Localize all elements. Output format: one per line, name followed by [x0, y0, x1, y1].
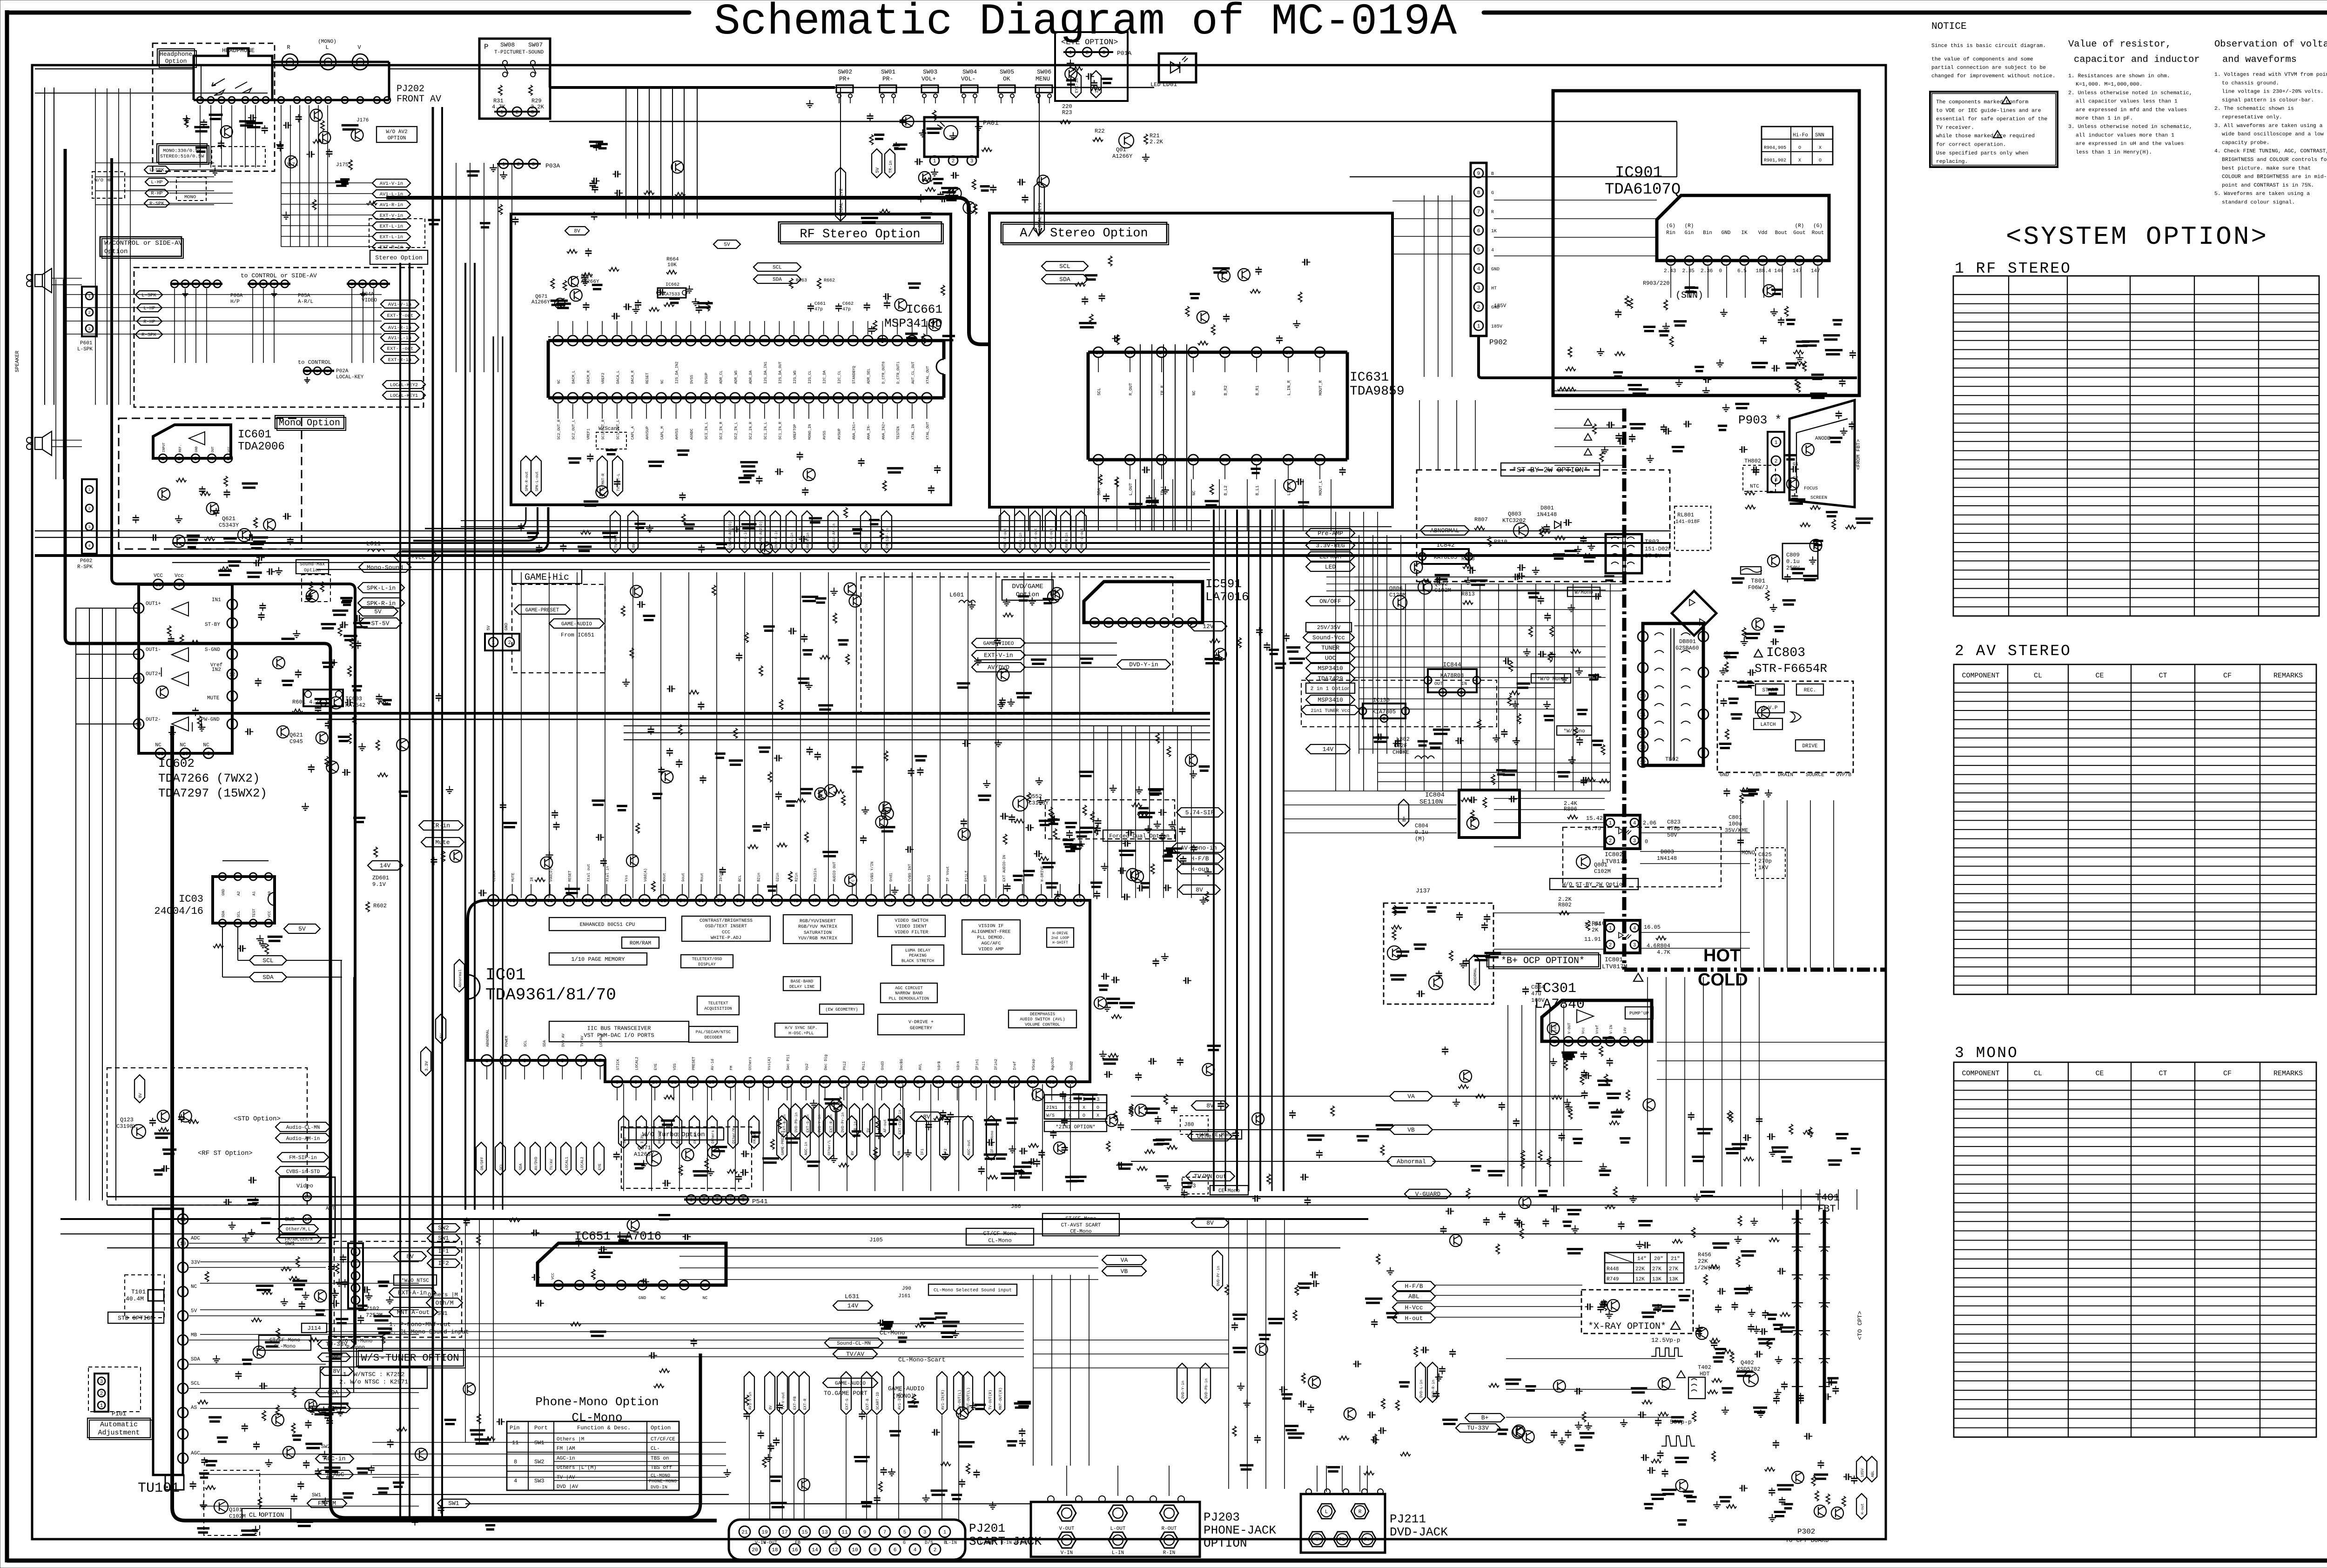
front AV pin bar	[194, 99, 389, 101]
svg-text:2in1 TUNER Vcc: 2in1 TUNER Vcc	[1311, 708, 1350, 714]
component cluster: right of IC602 zone2	[342, 772, 345, 773]
svg-text:J174: J174	[286, 162, 298, 168]
CT/CF-Mono box left	[259, 1335, 311, 1350]
svg-text:3: 3	[716, 1198, 719, 1203]
svg-text:ADR_CL: ADR_CL	[720, 370, 724, 384]
table 2 AV STEREO	[1954, 664, 2316, 994]
svg-text:9: 9	[1477, 171, 1480, 177]
svg-text:SCL: SCL	[262, 957, 273, 964]
svg-text:3: 3	[236, 875, 239, 879]
svg-text:RF Stereo Option: RF Stereo Option	[800, 228, 920, 241]
svg-text:ADR_DA: ADR_DA	[749, 370, 753, 384]
svg-text:P03A: P03A	[545, 162, 560, 169]
svg-text:Vdd(D): Vdd(D)	[549, 868, 553, 882]
Q804 KTA1024Y	[1387, 946, 1401, 960]
svg-text:*2IN1 OPTION*: *2IN1 OPTION*	[1056, 1125, 1096, 1130]
svg-text:28: 28	[992, 1080, 998, 1086]
R804 4.7K	[1656, 936, 1666, 940]
svg-text:IK: IK	[1741, 230, 1748, 236]
svg-text:2K: 2K	[1592, 927, 1599, 933]
svg-text:63: 63	[509, 898, 515, 904]
svg-text:NC: NC	[180, 743, 186, 748]
svg-text:22: 22	[879, 1080, 885, 1086]
svg-text:8V: 8V	[406, 1253, 414, 1260]
svg-text:12: 12	[1640, 760, 1646, 766]
svg-text:NOTICE: NOTICE	[1931, 21, 1967, 32]
svg-text:IC631: IC631	[1350, 370, 1389, 385]
svg-text:47: 47	[850, 396, 856, 402]
svg-text:O: O	[1096, 1106, 1099, 1111]
H/V SYNC SEP box	[775, 1023, 827, 1037]
P101 connector	[94, 1374, 108, 1412]
Q802 C102M	[1418, 580, 1432, 594]
IC130 KIA7805 box	[1363, 704, 1406, 718]
svg-text:DVD-Y-in: DVD-Y-in	[1129, 661, 1158, 668]
wires from HP flags	[169, 169, 233, 170]
svg-text:5: 5	[227, 456, 230, 462]
svg-text:O: O	[1083, 1113, 1085, 1119]
svg-text:EXT-R: EXT-R	[803, 1399, 807, 1410]
flag 5V game	[358, 607, 398, 616]
svg-text:COLOUR and BRIGHTNESS are in m: COLOUR and BRIGHTNESS are in mid-	[2222, 174, 2327, 180]
svg-text:11: 11	[841, 1530, 848, 1535]
connector P05A A-R/L	[248, 283, 290, 285]
svg-text:44: 44	[806, 396, 812, 402]
RCA jack L MONO	[320, 54, 336, 70]
vertical pill EYE-in	[1071, 71, 1081, 98]
svg-text:1: 1	[137, 606, 141, 612]
svg-text:VdrB: VdrB	[937, 1061, 942, 1070]
svg-text:CE: CE	[2095, 672, 2104, 680]
svg-text:SC2_OUT_R: SC2_OUT_R	[557, 420, 561, 440]
svg-text:L_OUT: L_OUT	[1129, 482, 1133, 496]
svg-text:OPTION: OPTION	[388, 136, 406, 141]
CRT bell symbol	[1789, 400, 1855, 507]
svg-text:1: 1	[354, 1298, 357, 1304]
svg-text:LOCAL-KEY: LOCAL-KEY	[336, 375, 364, 380]
svg-text:AV-R-in: AV-R-in	[1065, 532, 1069, 548]
flag EXT-V-out	[381, 311, 420, 319]
svg-text:Bin: Bin	[1703, 230, 1712, 236]
svg-text:LTV817M: LTV817M	[1602, 963, 1628, 970]
component cluster: mid right of IC01	[1183, 980, 1186, 981]
flag 8V tv	[1191, 1101, 1229, 1110]
svg-text:10: 10	[652, 1080, 658, 1086]
svg-text:16: 16	[703, 339, 708, 344]
svg-text:47p: 47p	[842, 307, 851, 312]
svg-text:46: 46	[835, 396, 841, 402]
B+ vertical pill	[1399, 799, 1409, 826]
component cluster: deflection R306 C401 C402 L401 L402 D401 R401 R402 C404	[1771, 1146, 1788, 1149]
svg-text:NC: NC	[203, 743, 209, 748]
page border top-left bar	[7, 11, 689, 15]
svg-text:34: 34	[1057, 898, 1063, 904]
svg-text:4: 4	[231, 603, 234, 608]
flag L-HP	[145, 178, 168, 186]
warning triangle symbol 1	[2002, 97, 2011, 104]
svg-text:CT/CF-Mono: CT/CF-Mono	[1065, 1216, 1096, 1222]
IC602 package	[139, 584, 232, 753]
svg-text:1: 1	[1775, 440, 1778, 446]
svg-text:O: O	[1819, 158, 1822, 163]
relay RL801 box	[1675, 506, 1711, 550]
svg-text:SDA: SDA	[543, 1040, 547, 1047]
svg-text:REC.: REC.	[1804, 688, 1816, 693]
svg-text:2.43: 2.43	[1664, 268, 1676, 274]
svg-text:62: 62	[528, 898, 534, 904]
svg-text:3. All waveforms are taken usi: 3. All waveforms are taken using a	[2214, 123, 2323, 129]
svg-text:J105: J105	[869, 1237, 883, 1243]
flags TUNER UOC MSP3410 TDA7429	[1306, 643, 1355, 652]
IC631 TDA9859 package bottom pin row	[1088, 458, 1347, 462]
svg-text:SCL: SCL	[1059, 263, 1070, 270]
flag GAME-VIDEO	[972, 638, 1025, 648]
svg-text:DVD-Pr-in: DVD-Pr-in	[841, 1112, 845, 1132]
wire: rail joiner	[549, 69, 550, 87]
svg-text:8: 8	[616, 1080, 619, 1086]
svg-text:SATURATION: SATURATION	[804, 931, 832, 936]
svg-text:14": 14"	[1637, 1256, 1647, 1262]
DVD/GAME Option dashed box	[861, 577, 1173, 714]
svg-text:P541: P541	[752, 1198, 768, 1206]
svg-text:5: 5	[1702, 670, 1705, 676]
svg-text:Xtal in: Xtal in	[606, 866, 610, 882]
flag EXT-A-in	[389, 1288, 436, 1297]
vertical pills above SCART	[744, 1372, 754, 1414]
svg-text:LA7016: LA7016	[1205, 590, 1249, 604]
svg-text:(G): (G)	[1666, 223, 1675, 229]
svg-text:SCL: SCL	[499, 1163, 504, 1170]
svg-text:DVD-R-in: DVD-R-in	[1432, 1380, 1436, 1398]
wires: power region horizontals	[1378, 763, 1610, 764]
svg-text:3: 3	[88, 525, 91, 529]
svg-text:7: 7	[1477, 209, 1480, 215]
svg-text:CT: CT	[2159, 1070, 2167, 1078]
svg-text:less than 1 in Henry(H).: less than 1 in Henry(H).	[2076, 150, 2152, 155]
svg-text:R31: R31	[493, 98, 504, 104]
svg-text:DACM_L: DACM_L	[572, 370, 576, 384]
svg-text:SW05: SW05	[1000, 68, 1014, 75]
svg-text:8: 8	[182, 1290, 185, 1295]
svg-text:(R): (R)	[1685, 223, 1694, 229]
svg-text:27K: 27K	[1669, 1266, 1678, 1272]
svg-text:NC: NC	[191, 1284, 197, 1290]
svg-text:DACA_R: DACA_R	[631, 370, 635, 384]
svg-text:10: 10	[182, 751, 188, 757]
isolation dashed bus vertical	[1622, 409, 1627, 970]
svg-text:T-SOUND: T-SOUND	[522, 50, 544, 55]
component cluster: C132 C841 R814 C831	[1455, 740, 1458, 741]
svg-text:R21: R21	[1150, 133, 1160, 139]
svg-text:PJ202: PJ202	[397, 84, 424, 94]
connector game 2pin	[485, 634, 519, 650]
bus: audio loop A	[65, 149, 700, 1518]
svg-text:7: 7	[837, 339, 840, 344]
bus: horizontal bundle mid	[172, 712, 1210, 715]
svg-text:3: 3	[1633, 838, 1636, 844]
svg-text:1 RF STEREO: 1 RF STEREO	[1955, 260, 2071, 277]
op-amp C	[172, 672, 188, 686]
svg-text:GAME-PRESET: GAME-PRESET	[525, 608, 559, 613]
svg-text:ANA_IN2+: ANA_IN2+	[881, 422, 886, 440]
svg-text:38: 38	[982, 898, 988, 904]
component cluster: center-left game zone	[833, 613, 837, 623]
svg-text:0.1u: 0.1u	[1415, 829, 1428, 836]
svg-text:2: 2	[252, 875, 254, 879]
svg-text:45: 45	[849, 898, 855, 904]
W/O ST-BY 2W Option label box	[1550, 878, 1638, 890]
svg-text:7: 7	[1637, 1039, 1640, 1045]
svg-text:151-D02F: 151-D02F	[1645, 546, 1672, 552]
svg-text:1: 1	[557, 1283, 560, 1289]
bus: horizontal bundle upper	[35, 530, 1671, 531]
T802 transformer	[1643, 623, 1703, 765]
Mono Option dashed box	[119, 418, 302, 549]
svg-text:IC802: IC802	[1605, 851, 1623, 858]
svg-text:L631: L631	[845, 1293, 859, 1300]
PJ203 pins	[1048, 1496, 1054, 1502]
svg-text:SC3_IN_R: SC3_IN_R	[720, 422, 724, 440]
svg-text:changed for improvement withou: changed for improvement without notice.	[1931, 74, 2056, 79]
svg-text:20: 20	[644, 339, 649, 344]
svg-text:AgcOut: AgcOut	[1051, 1057, 1055, 1070]
PJ203 jacks	[1057, 1505, 1076, 1521]
svg-text:Bout: Bout	[1775, 230, 1787, 236]
vertical pill SPK-L-out	[531, 456, 541, 496]
flag SW2 tuner	[427, 1224, 460, 1232]
bus: right vertical bundle	[1213, 509, 1215, 1191]
svg-text:SCART-ID: SCART-ID	[876, 1392, 880, 1410]
W/O Turbo Option label box	[624, 1128, 724, 1140]
svg-text:R: R	[287, 44, 290, 51]
page border bottom	[7, 1559, 2327, 1563]
W/S tuner dashed box	[334, 1241, 462, 1337]
svg-text:5V: 5V	[191, 1308, 197, 1314]
component cluster: SCART left lower	[470, 1429, 485, 1432]
svg-text:IC591: IC591	[1205, 577, 1242, 591]
thick bus from P902	[1479, 336, 1857, 378]
svg-text:point and CONTRAST is in 75%.: point and CONTRAST is in 75%.	[2222, 183, 2314, 188]
IC802 LTV817M optocoupler	[1605, 815, 1640, 849]
svg-text:19: 19	[822, 1080, 828, 1086]
svg-text:1. P-Mono-MNT-out: 1. P-Mono-MNT-out	[389, 1321, 451, 1328]
speaker L symbol	[35, 268, 52, 293]
svg-text:L-IN: L-IN	[946, 1541, 957, 1546]
J80 dashed	[1180, 1116, 1208, 1134]
component cluster: B+ area lower	[1602, 1037, 1614, 1039]
svg-text:CF: CF	[2223, 1070, 2232, 1078]
svg-text:2: 2	[88, 507, 91, 511]
svg-text:29: 29	[1011, 1080, 1017, 1086]
svg-text:I2C_DA: I2C_DA	[823, 370, 827, 384]
svg-text:SDA: SDA	[1097, 488, 1102, 496]
svg-text:1: 1	[306, 369, 309, 374]
svg-text:15: 15	[747, 1080, 753, 1086]
svg-text:R22: R22	[1095, 128, 1105, 134]
svg-text:5: 5	[221, 921, 223, 926]
svg-text:!: !	[2005, 100, 2008, 105]
svg-text:250V: 250V	[1786, 565, 1800, 571]
svg-text:17: 17	[688, 339, 693, 344]
svg-text:B: B	[1491, 172, 1494, 177]
svg-text:12V: 12V	[1095, 85, 1099, 93]
svg-text:3.3V: 3.3V	[424, 1061, 429, 1071]
bus: trunk corner joins	[402, 507, 548, 551]
svg-text:12: 12	[690, 1080, 696, 1086]
svg-text:2: 2	[1426, 678, 1430, 684]
R808 4.7K ps	[1463, 565, 1473, 569]
DRIVE box	[1796, 740, 1824, 751]
svg-text:Option: Option	[104, 248, 128, 255]
svg-text:47: 47	[812, 898, 818, 904]
T401 FBT	[1796, 1210, 1799, 1424]
svg-text:23: 23	[1285, 458, 1291, 463]
svg-text:TB02: TB02	[1665, 756, 1679, 763]
svg-text:IR-in: IR-in	[432, 822, 450, 829]
svg-text:CT/CF/CE: CT/CF/CE	[651, 1437, 675, 1442]
svg-text:5. Waveforms are taken using a: 5. Waveforms are taken using a	[2214, 191, 2310, 197]
svg-text:IR: IR	[530, 877, 534, 882]
switch body 2	[880, 85, 896, 93]
svg-text:8: 8	[514, 1459, 517, 1465]
svg-text:Hi-Fo: Hi-Fo	[1793, 133, 1808, 138]
svg-text:14.75: 14.75	[1584, 825, 1601, 832]
svg-text:TDA6107Q: TDA6107Q	[1605, 181, 1681, 199]
flag H-out main	[1177, 864, 1223, 874]
svg-text:22: 22	[1253, 458, 1259, 463]
svg-text:ABNORMAL: ABNORMAL	[1473, 967, 1478, 985]
svg-text:2nd LOOP: 2nd LOOP	[1051, 936, 1069, 940]
svg-text:SCREEN: SCREEN	[1810, 496, 1827, 501]
flag EXT-R-in top	[372, 243, 410, 251]
svg-text:D_CTR_OUT1: D_CTR_OUT1	[896, 362, 901, 384]
vertical pill TV/MNT-R	[597, 456, 607, 496]
svg-text:AGC CIRCUIT: AGC CIRCUIT	[895, 986, 923, 991]
svg-text:W/Scant: W/Scant	[599, 426, 620, 432]
svg-text:B_R2: B_R2	[1224, 385, 1228, 395]
svg-text:3: 3	[1383, 717, 1386, 722]
flag 25V/35V box	[1306, 623, 1352, 632]
svg-text:DVSS: DVSS	[690, 375, 694, 384]
flag EXT-L-in top	[372, 222, 410, 230]
svg-text:EXT-L-in: EXT-L-in	[380, 235, 403, 240]
svg-text:AV1-IN(L): AV1-IN(L)	[898, 1390, 902, 1410]
svg-text:A-R/L: A-R/L	[298, 299, 313, 305]
svg-text:Q672: Q672	[581, 274, 593, 279]
svg-text:ALIGNMENT-FREE: ALIGNMENT-FREE	[971, 930, 1010, 935]
TELETEXT/OSD DISPLAY box	[681, 955, 733, 968]
svg-text:2: 2	[262, 282, 265, 287]
svg-text:MUTE: MUTE	[511, 873, 516, 882]
svg-text:21: 21	[629, 339, 634, 344]
svg-text:Phone-Mono Option: Phone-Mono Option	[535, 1395, 659, 1409]
svg-text:TEST: TEST	[252, 909, 256, 918]
flag EXT-L-in dashed	[372, 233, 410, 241]
flag SPK-L-in	[358, 583, 404, 593]
svg-text:4: 4	[210, 456, 214, 462]
svg-text:L: L	[325, 44, 329, 51]
flag ST-5V	[359, 618, 402, 628]
svg-text:3 MONO: 3 MONO	[1955, 1045, 2018, 1062]
AGC CIRCUIT box	[881, 983, 937, 1003]
B+ OCP OPTION dashed box	[1384, 903, 1493, 1004]
C661 C662 47p	[810, 303, 811, 306]
component cluster: R665 R666 C669 Q671 Q672 C667 C668	[585, 278, 585, 281]
svg-text:AGC-out: AGC-out	[967, 1139, 971, 1155]
component cluster: IC901 left interior	[1632, 389, 1648, 391]
svg-text:L802: L802	[1396, 736, 1410, 743]
svg-text:PHONE-JACK: PHONE-JACK	[1204, 1523, 1276, 1537]
svg-text:33V: 33V	[191, 1260, 200, 1266]
flag SCL tuner	[316, 1404, 350, 1413]
NTSC note box	[320, 1367, 427, 1388]
vertical pill 5V ir	[872, 149, 882, 178]
svg-text:V-IN: V-IN	[1061, 1550, 1073, 1556]
flag Mute	[421, 838, 464, 847]
svg-text:R663: R663	[796, 278, 807, 283]
flag Abnormal	[1387, 1157, 1436, 1166]
svg-text:Vdd: Vdd	[1758, 230, 1768, 236]
svg-text:185V: 185V	[1491, 324, 1502, 329]
svg-text:12: 12	[229, 672, 235, 678]
component cluster: R310 R312 R313 Q301 D302 C446 D442 FR443 C443 D443 FR441 C442	[1633, 1195, 1634, 1199]
svg-text:13: 13	[1640, 745, 1646, 750]
flag Audio-AM-in	[276, 1133, 330, 1143]
svg-text:16: 16	[792, 1548, 798, 1553]
IC591 LA7016 package	[1084, 582, 1203, 623]
flag L-HP 2	[137, 304, 162, 312]
svg-text:TU101: TU101	[138, 1481, 180, 1496]
svg-text:25V/35V: 25V/35V	[1317, 624, 1341, 631]
svg-text:R810: R810	[1494, 539, 1507, 545]
svg-text:10K: 10K	[667, 262, 677, 268]
svg-text:P11Lf: P11Lf	[965, 871, 969, 882]
P box pin bar	[494, 111, 540, 113]
svg-text:NC: NC	[703, 1296, 708, 1300]
svg-text:25: 25	[935, 1080, 942, 1086]
wires: IC01 to bottom	[623, 1084, 624, 1191]
svg-text:T801: T801	[1751, 577, 1765, 584]
svg-text:27K: 27K	[1652, 1266, 1661, 1272]
IC631 TDA9859 package top pin row	[1088, 351, 1347, 354]
svg-text:33: 33	[1076, 898, 1082, 904]
svg-text:1/10 PAGE MEMORY: 1/10 PAGE MEMORY	[571, 956, 625, 963]
svg-text:R: R	[1491, 210, 1494, 215]
wires: right defl verticals	[1647, 977, 1648, 1186]
svg-text:8V: 8V	[1206, 1102, 1214, 1109]
svg-text:DecBG: DecBG	[900, 1059, 904, 1070]
MONO dashed box	[176, 177, 206, 201]
svg-text:all inductor values more than: all inductor values more than 1	[2076, 133, 2174, 138]
bus: lower horizontal bundle	[107, 1196, 1838, 1198]
svg-text:SCL: SCL	[524, 1040, 528, 1047]
Stereo Option box	[370, 250, 428, 264]
svg-text:R-SPK: R-SPK	[141, 332, 156, 338]
flag Sound-CL-MN	[825, 1338, 883, 1347]
svg-text:5V: 5V	[298, 925, 306, 932]
svg-text:CT-AVST SCART: CT-AVST SCART	[1061, 1223, 1101, 1228]
svg-text:BLACK STRETCH: BLACK STRETCH	[901, 958, 934, 963]
svg-text:AGNDC: AGNDC	[690, 429, 694, 440]
svg-text:21: 21	[1222, 458, 1228, 463]
svg-text:11: 11	[157, 751, 164, 757]
svg-text:1: 1	[933, 159, 936, 164]
svg-text:C804: C804	[1415, 823, 1428, 829]
flag 5V tuner	[318, 1353, 350, 1361]
svg-text:43: 43	[791, 396, 797, 402]
svg-text:Rout: Rout	[1812, 230, 1824, 236]
svg-text:LOCAL-KEY2: LOCAL-KEY2	[390, 383, 418, 388]
